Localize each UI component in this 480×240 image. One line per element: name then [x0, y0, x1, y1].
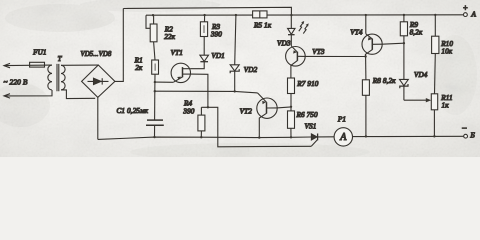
svg-text:+: +: [463, 3, 469, 12]
junction VD2 bottom: [234, 90, 236, 92]
resistor R7: [288, 78, 295, 107]
potentiometer R11: [431, 94, 437, 137]
wire mid horizontal rail C1 VD2 VT2: [155, 91, 258, 93]
wire VT2 base to R6 R7 node: [277, 107, 291, 108]
junction bottom rail R4: [200, 136, 202, 138]
junction top rail R9: [403, 14, 405, 16]
wire node R1 bottom to VT1 emitter: [155, 81, 173, 83]
diode VD1: [200, 37, 209, 62]
svg-text:VT1: VT1: [171, 49, 183, 57]
svg-text:VT4: VT4: [350, 29, 363, 37]
transformer T primary winding: [48, 65, 52, 90]
junction bottom rail VT2 collector: [258, 136, 260, 138]
wire top outer rail: [123, 7, 291, 15]
svg-text:R8 8,2к: R8 8,2к: [372, 77, 396, 85]
transistor VT2: [257, 93, 277, 138]
resistor R10: [432, 15, 439, 94]
svg-text:А: А: [470, 9, 476, 18]
capacitor C1: [146, 91, 164, 137]
wire AC bottom lead with left arrow: [4, 90, 52, 98]
junction top rail R10: [434, 14, 436, 16]
wire VT1 collector to VD1: [190, 62, 204, 69]
junction top rail VD3: [290, 14, 292, 16]
zener diode VD2: [230, 15, 239, 91]
wire node down to mid rail: [154, 82, 156, 91]
junction top rail VT4: [365, 14, 367, 16]
bridge rectifier VD5..VD8: [82, 65, 115, 97]
svg-text:−: −: [461, 123, 467, 133]
svg-text:VT3: VT3: [312, 48, 325, 56]
svg-text:R6 750: R6 750: [296, 111, 318, 119]
wire VT3 base to R8 node: [305, 55, 365, 57]
transistor VT4: [362, 15, 382, 56]
wire R4 node to VS1 gate: [201, 107, 311, 147]
junction C1 top: [154, 90, 156, 92]
svg-text:VD1: VD1: [211, 52, 224, 60]
resistor R3: [200, 15, 207, 36]
junction bottom rail R11: [433, 135, 435, 137]
svg-text:R11: R11: [440, 94, 452, 102]
svg-text:VD5...VD8: VD5...VD8: [80, 51, 111, 58]
junction VT4 base R9 VD4: [403, 42, 405, 44]
junction bottom rail R6: [290, 136, 292, 138]
wire VD4 to R11 wiper arrow: [404, 98, 431, 102]
svg-text:VT2: VT2: [240, 107, 253, 115]
svg-text:R7 910: R7 910: [296, 80, 318, 88]
thyristor VS1: [311, 134, 317, 147]
led VD3: [288, 15, 309, 46]
transformer T secondary winding: [61, 65, 65, 90]
wire bottom rail: [98, 137, 311, 139]
transformer T core: [57, 64, 59, 91]
transistor VT3: [286, 46, 306, 78]
junction top rail VD2: [235, 14, 237, 16]
wire AC top lead with left arrow: [4, 63, 52, 67]
wire bridge minus down to bottom rail: [97, 97, 99, 139]
transistor VT1: [171, 63, 190, 82]
junction R1 bottom VT1 emitter: [154, 81, 156, 83]
wire inner top rail: [146, 14, 465, 16]
ammeter P1: [334, 128, 352, 146]
wire secondary top to bridge: [61, 64, 98, 66]
junction top rail R2: [152, 14, 154, 16]
resistor R2: [150, 15, 157, 60]
wire secondary bottom to bridge: [61, 90, 95, 99]
wire bottom rail right part: [318, 135, 464, 138]
terminal B minus: [461, 123, 475, 140]
junction R7 R6 VT2 base: [290, 106, 292, 108]
resistor R4: [198, 107, 205, 137]
svg-text:390: 390: [182, 108, 194, 116]
svg-text:22к: 22к: [164, 33, 175, 41]
wire R2 side tap hook: [146, 15, 150, 28]
resistor R9: [400, 15, 407, 43]
svg-text:С1 0,25мк: С1 0,25мк: [117, 107, 149, 115]
junction bottom rail R8: [365, 135, 367, 137]
fuse FU1: [30, 62, 45, 67]
svg-text:Р1: Р1: [337, 116, 346, 124]
svg-text:8,2к: 8,2к: [410, 28, 423, 36]
svg-text:VD3: VD3: [277, 39, 291, 47]
svg-text:~ 220 В: ~ 220 В: [4, 77, 28, 86]
svg-text:2к: 2к: [135, 64, 143, 72]
resistor R5: [253, 11, 267, 18]
svg-text:FU1: FU1: [32, 49, 46, 57]
svg-text:10к: 10к: [441, 48, 452, 56]
wire VT1 base to R4 node: [190, 74, 208, 107]
resistor R6: [288, 107, 295, 138]
svg-text:R4: R4: [183, 100, 192, 108]
junction top rail R3: [203, 14, 205, 16]
svg-text:1к: 1к: [442, 102, 450, 110]
wire VT4 base to R9 VD4 node: [382, 43, 404, 44]
svg-text:R5 1к: R5 1к: [253, 21, 272, 29]
svg-text:А: А: [339, 132, 347, 143]
resistor R1: [152, 60, 159, 82]
svg-text:VD4: VD4: [414, 71, 428, 79]
junction VT3 base R8 VT4 collector: [364, 55, 366, 57]
junction bottom rail C1: [153, 136, 155, 138]
junction VT1 base R4 gate: [207, 106, 209, 108]
wire bridge plus output up to top rail: [115, 9, 123, 82]
svg-text:Б: Б: [469, 131, 475, 140]
svg-text:VD2: VD2: [244, 66, 258, 74]
resistor R8: [362, 57, 369, 137]
terminal A plus: [463, 3, 477, 18]
svg-text:VS1: VS1: [305, 122, 317, 130]
svg-text:R10: R10: [440, 40, 453, 48]
zener diode VD4: [400, 43, 409, 100]
svg-text:390: 390: [210, 31, 222, 39]
